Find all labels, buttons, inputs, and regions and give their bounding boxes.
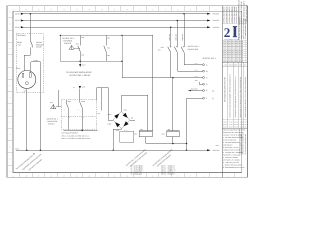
svg-text:SIZE DWG NO 123456 REV C: SIZE DWG NO 123456 REV C: [223, 54, 243, 56]
svg-text:11: 11: [114, 9, 116, 11]
svg-text:13: 13: [88, 9, 90, 11]
svg-text:10D: 10D: [131, 117, 134, 119]
svg-text:12: 12: [101, 9, 103, 11]
svg-text:SIZE DWG NO 123456 REV C: SIZE DWG NO 123456 REV C: [223, 45, 243, 47]
svg-text:OPTIONAL: OPTIONAL: [17, 34, 26, 37]
svg-text:24 IN: 24 IN: [15, 12, 20, 15]
svg-text:10-12: 10-12: [240, 122, 244, 124]
svg-text:K: K: [10, 48, 11, 50]
svg-text:24V: 24V: [98, 113, 101, 115]
svg-text:K11: K11: [107, 47, 110, 50]
svg-text:APP: APP: [239, 65, 242, 67]
svg-text:24 IN: 24 IN: [15, 26, 20, 29]
svg-text:N: N: [9, 11, 10, 13]
svg-text:15: 15: [63, 176, 65, 178]
svg-text:19: 19: [13, 176, 15, 178]
svg-text:NOTE 5 - PER SPEC: NOTE 5 - PER SPEC: [161, 174, 175, 176]
svg-text:A5 - SPARE LINE: A5 - SPARE LINE: [131, 174, 142, 176]
svg-text:10D: 10D: [140, 129, 143, 131]
svg-text:16: 16: [50, 9, 52, 11]
svg-text:04-02: 04-02: [240, 124, 244, 126]
svg-text:A2 - OUTPUT NO.2: A2 - OUTPUT NO.2: [131, 167, 144, 169]
svg-text:OUTPUT NO. 1: OUTPUT NO. 1: [62, 37, 74, 40]
svg-text:NOTE: NOTE: [215, 145, 219, 147]
svg-text:24 IN: 24 IN: [15, 19, 20, 22]
svg-text:17: 17: [38, 9, 40, 11]
svg-text:04-02: 04-02: [245, 124, 249, 126]
svg-text:19: 19: [13, 9, 15, 11]
svg-text:NOTE 4 - SEAL ALL: NOTE 4 - SEAL ALL: [161, 172, 174, 174]
svg-text:NOTE 1 - SEE SHT 2: NOTE 1 - SEE SHT 2: [161, 165, 175, 167]
svg-text:10-12: 10-12: [245, 122, 249, 124]
svg-text:04-02: 04-02: [229, 124, 233, 126]
svg-text:2: 2: [224, 25, 231, 40]
svg-text:OUTPUT NO. 1 RELAY: OUTPUT NO. 1 RELAY: [70, 74, 92, 77]
svg-text:10A1: 10A1: [195, 63, 198, 65]
svg-text:ELECTRICAL SYSTEMS: ELECTRICAL SYSTEMS: [224, 39, 240, 41]
svg-text:SIZE DWG NO 123456 REV C: SIZE DWG NO 123456 REV C: [223, 50, 243, 52]
svg-text:06-15: 06-15: [229, 126, 233, 128]
svg-text:10: 10: [126, 176, 128, 178]
svg-text:10-12: 10-12: [223, 122, 227, 124]
svg-text:S11: S11: [76, 43, 79, 46]
svg-text:TEST/RUN: TEST/RUN: [63, 39, 72, 42]
svg-text:15: 15: [63, 9, 65, 11]
svg-text:06-15: 06-15: [245, 126, 249, 128]
svg-text:SIZE DWG NO 123456 REV C: SIZE DWG NO 123456 REV C: [223, 59, 243, 61]
svg-text:06-15: 06-15: [223, 126, 227, 128]
svg-text:10-12: 10-12: [229, 122, 233, 124]
svg-text:16: 16: [50, 176, 52, 178]
svg-text:17: 17: [38, 176, 40, 178]
svg-text:P10 24V: P10 24V: [213, 12, 220, 15]
svg-text:13: 13: [88, 176, 90, 178]
svg-text:18: 18: [25, 9, 27, 11]
svg-text:A3 - OUTPUT NO.3: A3 - OUTPUT NO.3: [131, 170, 144, 172]
svg-text:RV: RV: [244, 65, 246, 67]
svg-text:H: H: [9, 85, 10, 87]
svg-text:DATE: DATE: [234, 65, 238, 67]
svg-text:SWITCH: SWITCH: [64, 42, 72, 45]
svg-text:BT11: BT11: [116, 130, 119, 132]
svg-text:REVISION RECORD HISTORY: REVISION RECORD HISTORY: [224, 76, 227, 102]
svg-text:NOTE 3 - TORQUE 12: NOTE 3 - TORQUE 12: [161, 170, 176, 172]
svg-text:B: B: [10, 159, 11, 161]
svg-text:18: 18: [25, 176, 27, 178]
svg-text:10: 10: [126, 9, 128, 11]
svg-text:06-15: 06-15: [240, 126, 244, 128]
svg-text:D11C: D11C: [124, 110, 127, 112]
svg-text:DESCR: DESCR: [229, 65, 234, 67]
svg-text:SIZE DWG NO 123456 REV C: SIZE DWG NO 123456 REV C: [223, 41, 243, 43]
svg-text:C: C: [9, 146, 10, 148]
svg-text:OUTPUT NO. 1: OUTPUT NO. 1: [203, 57, 216, 60]
svg-text:12: 12: [101, 176, 103, 178]
svg-text:24: 24: [73, 87, 75, 89]
svg-text:OUTPUT NO. 1: OUTPUT NO. 1: [188, 45, 200, 48]
svg-text:14: 14: [76, 9, 78, 11]
svg-text:CONTACTOR: CONTACTOR: [188, 48, 199, 51]
svg-text:SIZE DWG NO 123456 REV C: SIZE DWG NO 123456 REV C: [223, 43, 243, 45]
svg-text:E: E: [10, 122, 11, 124]
svg-text:E100: E100: [16, 67, 20, 70]
svg-text:10D: 10D: [168, 129, 171, 131]
svg-text:06-15: 06-15: [234, 126, 238, 128]
svg-text:K11: K11: [161, 46, 164, 49]
svg-text:11: 11: [114, 176, 116, 178]
svg-text:G10 24V: G10 24V: [213, 149, 221, 152]
svg-text:SIZE DWG NO 123456 REV C: SIZE DWG NO 123456 REV C: [223, 56, 243, 58]
svg-text:TRI-DELTA SYSTEMS INC.: TRI-DELTA SYSTEMS INC.: [238, 17, 241, 40]
svg-text:10-12: 10-12: [234, 122, 238, 124]
svg-text:NOTE 2 - SEE SHT 3: NOTE 2 - SEE SHT 3: [161, 167, 175, 169]
svg-text:A: A: [10, 171, 11, 173]
svg-text:14: 14: [76, 176, 78, 178]
svg-text:G10 24V: G10 24V: [213, 26, 221, 29]
svg-text:04-02: 04-02: [223, 124, 227, 126]
svg-text:10A2: 10A2: [195, 69, 198, 71]
svg-text:K12: K12: [162, 133, 165, 136]
svg-text:K11: K11: [134, 133, 137, 136]
svg-text:SIZE DWG NO 123456 REV C: SIZE DWG NO 123456 REV C: [223, 48, 243, 50]
svg-text:A1 - OUTPUT NO.1: A1 - OUTPUT NO.1: [131, 165, 144, 167]
svg-text:04-02: 04-02: [234, 124, 238, 126]
svg-text:TO VOLTAGE REGULATOR: TO VOLTAGE REGULATOR: [66, 71, 92, 74]
svg-text:SIZE DWG NO 123456 REV C: SIZE DWG NO 123456 REV C: [223, 52, 243, 54]
svg-text:D: D: [9, 134, 10, 136]
svg-text:F: F: [10, 109, 11, 111]
svg-text:10A3: 10A3: [195, 76, 198, 78]
svg-text:A4 - SPARE LINE: A4 - SPARE LINE: [131, 172, 142, 174]
svg-text:N10 24V: N10 24V: [213, 19, 220, 22]
